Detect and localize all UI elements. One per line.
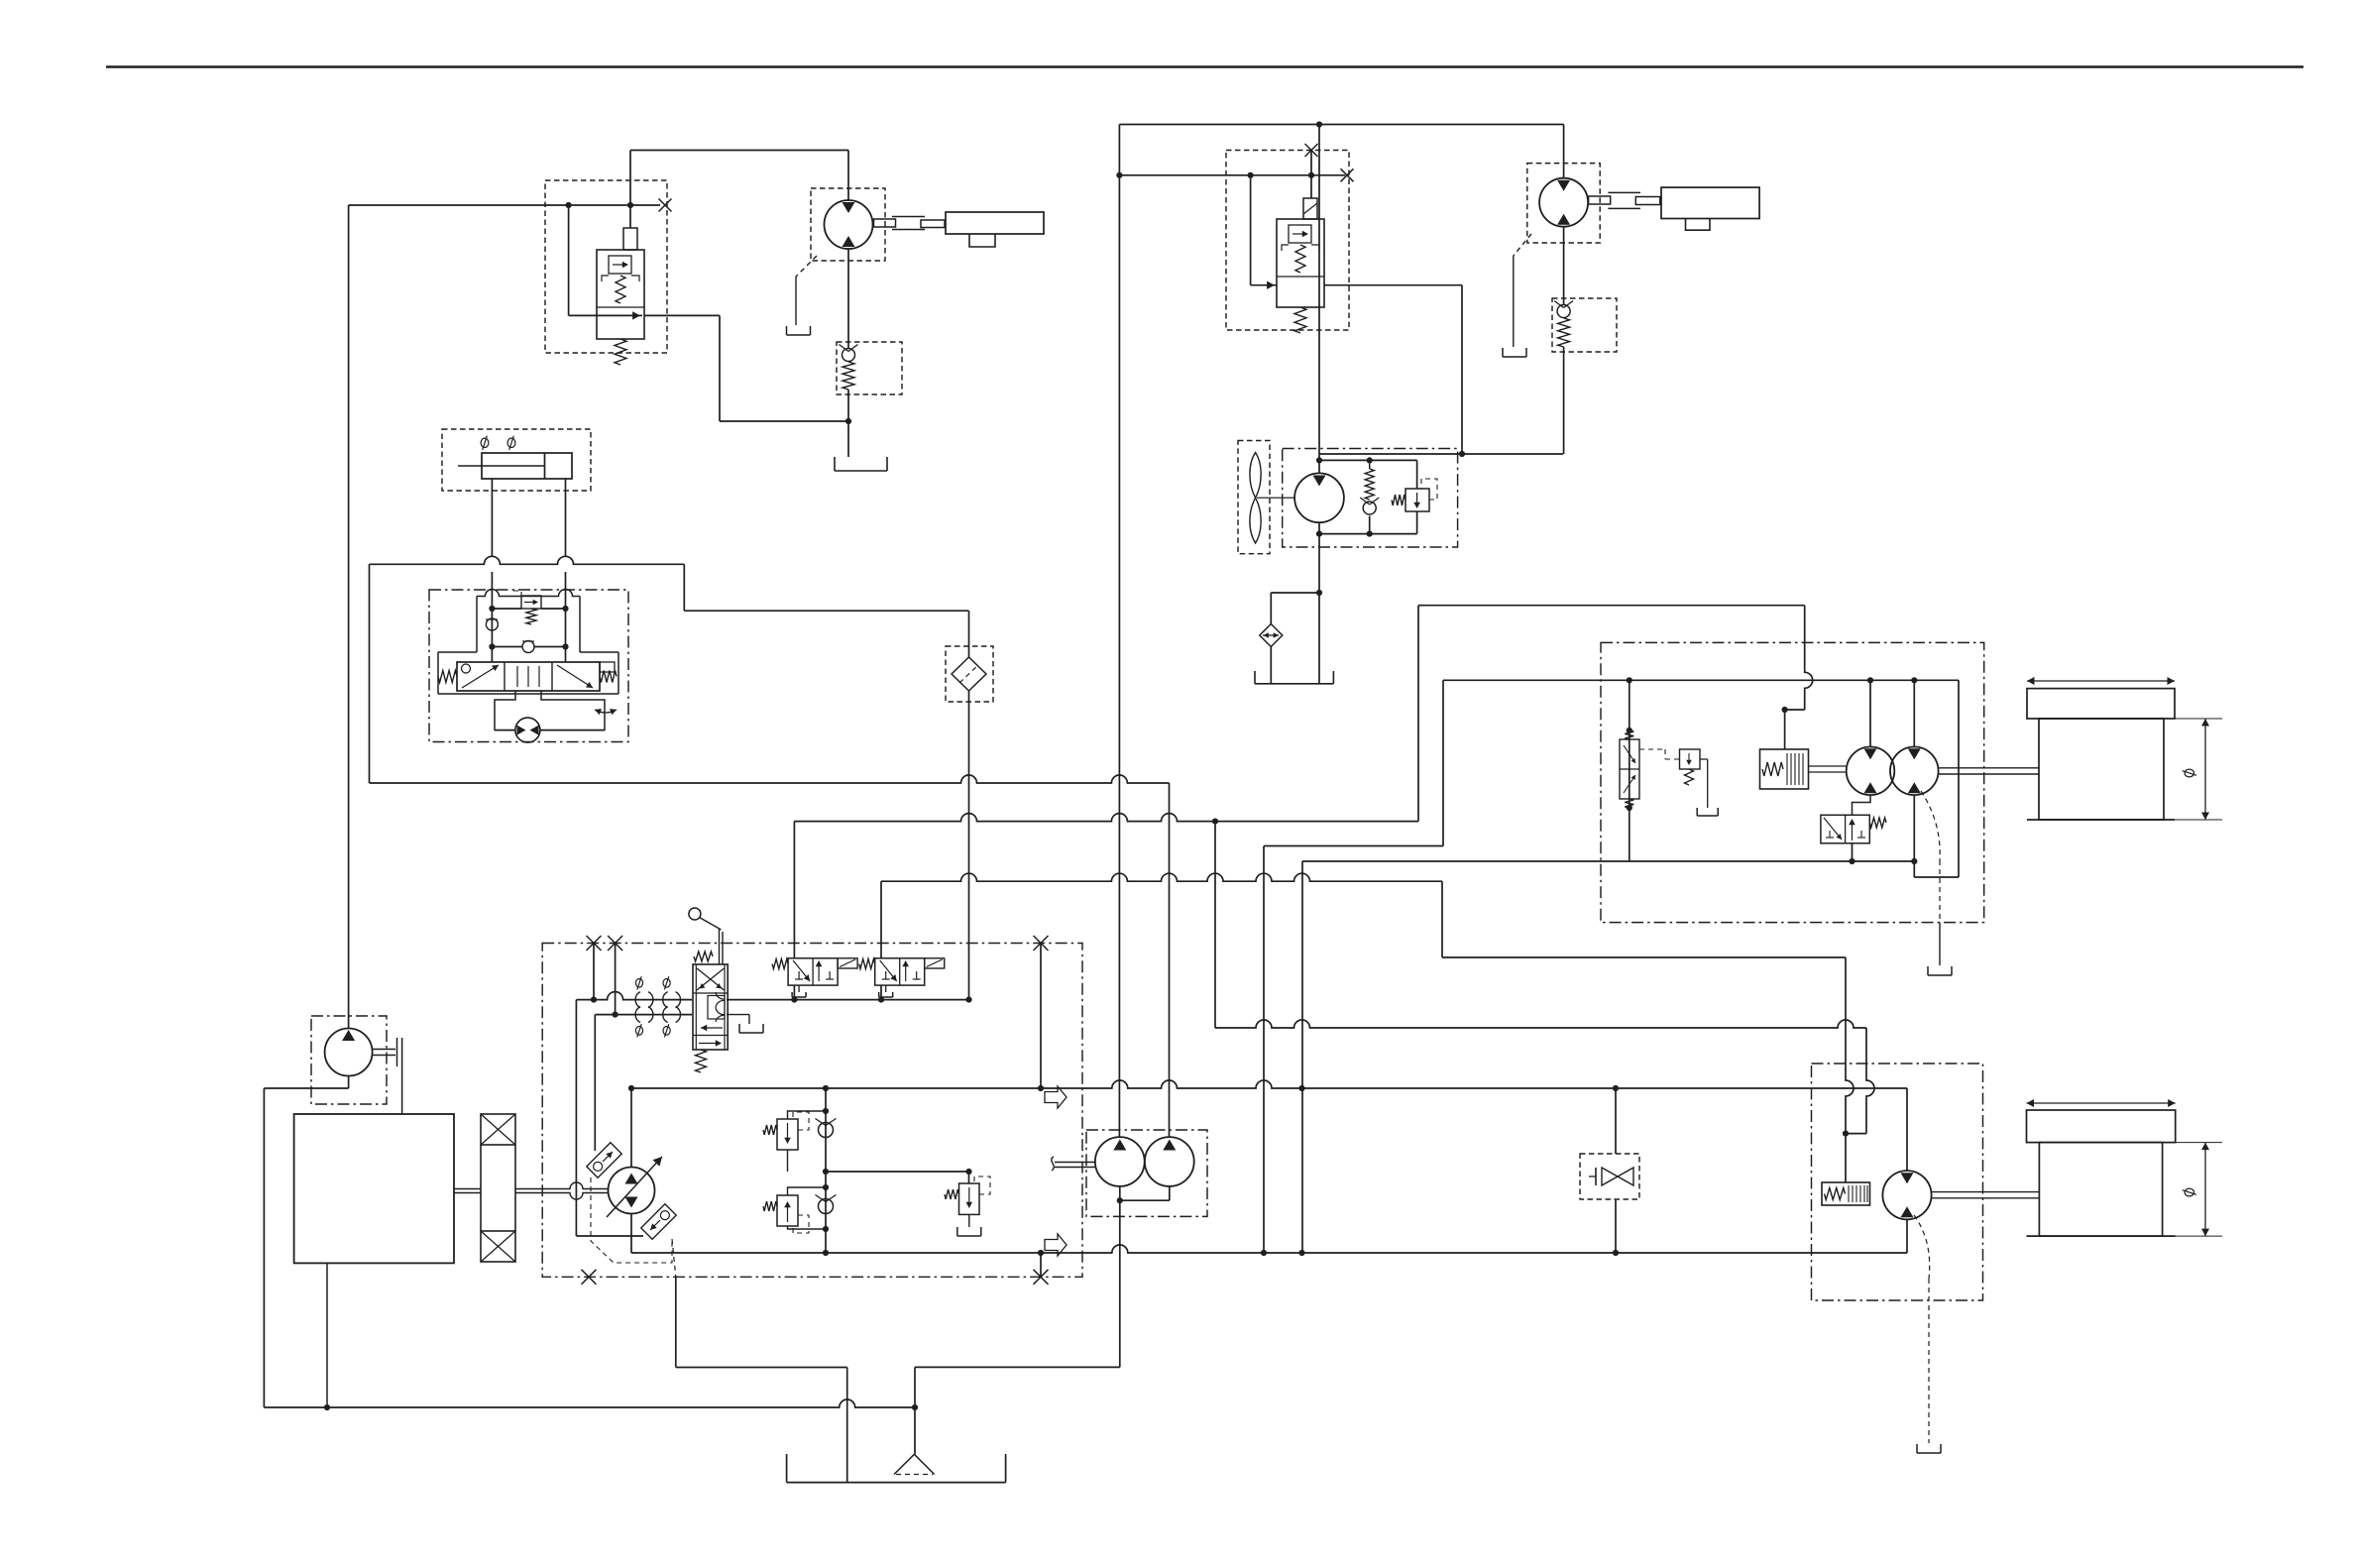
motor case drain — [1921, 791, 1940, 923]
wire pilot B — [595, 1014, 692, 1016]
check valve C1 spring — [843, 362, 854, 390]
valve B2 pilot cap — [1303, 198, 1317, 219]
wire — [1120, 1186, 1170, 1200]
drain bracket — [957, 1227, 981, 1236]
valve F4 left arrow — [462, 665, 499, 688]
relief valve F1 — [521, 596, 541, 609]
variable pump P1 — [609, 1168, 655, 1214]
pilot valve PM bottom spring — [1625, 799, 1633, 808]
wire — [1118, 125, 1120, 1138]
wire — [1914, 876, 1959, 878]
valve B2 body divider — [1277, 276, 1324, 278]
wire — [1369, 516, 1371, 534]
node junction — [1298, 1085, 1304, 1091]
node junction — [1316, 590, 1322, 596]
two-speed valve TS — [1821, 815, 1869, 843]
wire — [846, 1368, 848, 1483]
lever arm — [700, 918, 722, 931]
wire — [1563, 227, 1565, 304]
rear motor RM — [1882, 1171, 1931, 1219]
wire pilot — [1852, 843, 1854, 861]
wire — [593, 944, 595, 1000]
coupling housing — [481, 1145, 515, 1231]
check valve C2 enclosure — [1552, 298, 1617, 352]
valve F4 pilot circle — [462, 664, 471, 673]
motor M2 shaft — [1589, 196, 1611, 204]
wire — [719, 315, 721, 421]
pump P1 control cylinder B — [641, 1204, 676, 1239]
valve B1 bottom spring — [615, 339, 626, 365]
wire — [615, 944, 617, 1015]
wire — [349, 204, 660, 206]
node junction — [1316, 531, 1373, 537]
coupling — [892, 217, 925, 230]
wire — [684, 610, 968, 612]
travel motor MA — [1847, 747, 1895, 796]
wire crossover line2 — [826, 1171, 969, 1173]
wire — [1785, 709, 1805, 711]
wire — [1119, 124, 1563, 126]
swing cylinder barrel — [482, 453, 572, 479]
page header rule — [106, 65, 2304, 68]
wheel W1 body — [2039, 719, 2164, 820]
tandem pump S1 — [1095, 1137, 1145, 1186]
relief RV1 pilot dashed — [793, 1112, 809, 1130]
orifice — [635, 976, 653, 1007]
relief valve F1 spring — [526, 609, 536, 624]
wire M2 brake line — [1215, 1020, 1866, 1028]
wire — [1442, 956, 1846, 958]
tandem pump S2 — [1145, 1137, 1194, 1186]
wire — [264, 1400, 915, 1407]
wire pilot branch — [568, 205, 570, 315]
dimension label — [2183, 1188, 2196, 1196]
valve Lv body — [693, 964, 728, 1050]
valve B1 body — [597, 250, 644, 339]
filter G — [952, 657, 986, 691]
tandem shaft — [1055, 1163, 1095, 1168]
wire — [880, 985, 882, 1000]
relief R3 pilot dashed — [974, 1176, 990, 1194]
check valve F3 — [522, 641, 534, 653]
wire — [1040, 944, 1042, 1089]
node junction — [823, 1108, 829, 1114]
directional valve F4 body — [457, 662, 600, 691]
wire — [1906, 1219, 1908, 1253]
valve B1 pilot cap — [623, 228, 637, 250]
node junction — [1627, 677, 1632, 683]
lever stem — [720, 929, 724, 964]
shaft — [1635, 197, 1660, 205]
wire — [1866, 1028, 1874, 1134]
bypass valve — [1589, 1168, 1633, 1185]
valve B2 inner bracket — [1282, 245, 1319, 251]
two-speed valve left arrow — [1824, 818, 1842, 840]
brake actuator BR1 — [1760, 749, 1809, 789]
dimension line — [2163, 1143, 2222, 1237]
motor M1 shaft — [874, 219, 896, 227]
wire — [1846, 957, 1854, 1134]
node junction — [489, 643, 568, 649]
valve Lv orifice cell — [708, 992, 725, 1022]
pilot valve PM top spring — [1625, 730, 1633, 739]
node junction — [1782, 707, 1788, 713]
final drive block FD2 boss — [1686, 219, 1711, 231]
wire strainer stem — [914, 1407, 916, 1454]
wire — [1040, 1253, 1042, 1277]
wire bus3 — [881, 873, 1442, 881]
check valve C1 enclosure — [837, 342, 902, 394]
wire — [1939, 923, 1941, 965]
two-speed valve spring — [1869, 818, 1886, 828]
wheel W2 base — [2027, 1235, 2176, 1237]
charge pump shaft — [373, 1050, 395, 1056]
node junction — [823, 1169, 972, 1175]
wire — [968, 691, 970, 1000]
wire — [1319, 533, 1417, 535]
lever knob — [689, 908, 701, 920]
manifold outline — [438, 590, 618, 695]
valve Lv top spring — [694, 952, 713, 961]
node junction — [1212, 819, 1218, 825]
valve F4 left spring — [438, 671, 457, 683]
node junction — [823, 1184, 829, 1232]
wheel W2 flange — [2027, 1110, 2176, 1143]
valve F4 right cap — [600, 662, 615, 672]
wire — [565, 609, 567, 662]
feedback arrow — [595, 709, 617, 715]
pilot relief drain — [1700, 759, 1708, 808]
valve B1 enclosure — [545, 180, 667, 353]
wire — [495, 729, 605, 731]
gerotor motor F5 feed — [495, 691, 515, 730]
engine block — [294, 1114, 454, 1263]
pump P1 envelope — [591, 1177, 672, 1263]
valve Lv bottom spring — [696, 1050, 707, 1072]
drain bracket — [1697, 808, 1718, 816]
node junction — [1843, 1131, 1849, 1137]
wire — [1271, 592, 1319, 594]
pilot relief PR dashes — [1639, 749, 1679, 759]
pump shaft squiggle — [1052, 1157, 1055, 1171]
wire — [594, 1015, 596, 1151]
wire — [676, 1367, 847, 1369]
node fan feed junction — [1316, 121, 1322, 127]
wire — [1629, 680, 1630, 861]
shaft coupling bars — [397, 1038, 402, 1114]
shaft — [921, 220, 945, 228]
wire W1 riser — [1442, 680, 1444, 845]
valve B2 body — [1277, 219, 1324, 307]
wire pump pressure — [348, 205, 350, 1029]
orifice — [635, 1007, 653, 1038]
wire — [1270, 647, 1272, 684]
fan motor FM — [1294, 473, 1344, 522]
wire brake feed bump — [1805, 606, 1813, 710]
node junction — [1117, 1197, 1123, 1203]
drain bracket — [1928, 966, 1952, 975]
wire — [629, 151, 631, 229]
dimension line — [2027, 1099, 2176, 1107]
valve B2 inner spring — [1295, 245, 1305, 273]
swing cylinder rod — [458, 465, 545, 467]
wire — [1869, 680, 1871, 746]
wire — [1318, 522, 1320, 684]
fan relief feed — [1416, 460, 1418, 489]
wire loop line3 — [631, 1245, 1907, 1253]
port label phi — [507, 436, 515, 450]
engine shaft — [454, 1189, 481, 1193]
pilot valve V1 — [772, 958, 857, 997]
brake actuator BR2 — [1822, 1182, 1870, 1205]
wire crossover 2 — [492, 646, 565, 648]
wire — [720, 420, 848, 422]
node junction — [1116, 172, 1122, 178]
wire — [1119, 1186, 1121, 1200]
valve B1 inner relief — [609, 256, 631, 274]
wire — [825, 1172, 827, 1253]
wire — [575, 1000, 577, 1236]
charge pump SP enclosure — [311, 1016, 387, 1104]
plugged port marker — [1341, 168, 1354, 181]
dimension line — [2027, 677, 2175, 685]
wire — [847, 151, 849, 201]
wire — [1958, 680, 1960, 877]
pilot relief PR spring — [1685, 769, 1694, 785]
node junction — [1367, 457, 1373, 463]
valve Lv top cell cross — [697, 968, 725, 990]
wire drain — [675, 1277, 677, 1367]
node junction — [1038, 1085, 1044, 1091]
relief RV1 — [777, 1119, 798, 1150]
valve Lv drain — [727, 1015, 749, 1024]
dimension label — [2183, 769, 2196, 777]
motor output shaft — [1939, 768, 2039, 774]
pump P1 suction — [630, 1214, 632, 1254]
wire — [793, 985, 795, 1000]
gerotor motor F5 — [515, 718, 540, 742]
wire loop line1 — [631, 1080, 1907, 1088]
wire — [1615, 1199, 1617, 1253]
node junction — [628, 1085, 634, 1091]
relief R3 feed — [968, 1172, 970, 1183]
charge pump suction — [264, 1076, 348, 1089]
pilot valve PM details — [1624, 745, 1635, 793]
tank T2 — [1255, 671, 1333, 684]
wire — [491, 609, 493, 662]
node junction — [613, 1012, 618, 1018]
bypass valve enclosure — [1580, 1154, 1639, 1199]
travel motor MB — [1890, 747, 1939, 796]
wire W1 feeder — [1264, 845, 1443, 847]
motor M2 enclosure — [1527, 164, 1600, 243]
relief RV2 — [777, 1195, 798, 1226]
node supply junction — [566, 202, 572, 208]
pilot relief PR — [1680, 749, 1701, 769]
drain to tank — [787, 326, 811, 335]
wire suction from tank — [263, 1088, 265, 1407]
wire — [1119, 174, 1345, 176]
node junction — [1849, 858, 1854, 864]
check valve C2 — [1554, 301, 1573, 318]
wire pilot A2 — [727, 999, 969, 1001]
wire — [1563, 125, 1565, 178]
wire B2 outlet — [1324, 284, 1462, 286]
fan motor enclosure — [1283, 449, 1458, 548]
drain bracket — [739, 1024, 763, 1033]
rear motor box enclosure — [1812, 1064, 1983, 1300]
port label phi — [481, 436, 489, 450]
wire bypass — [370, 556, 685, 564]
valve F4 mid detail — [517, 666, 539, 687]
wire — [1913, 795, 1915, 877]
port marker — [587, 936, 1049, 951]
wheel W1 flange — [2027, 689, 2175, 719]
wire — [1318, 125, 1320, 474]
pilot valve PM body — [1620, 739, 1639, 799]
node junction — [324, 1404, 330, 1410]
wire — [1319, 453, 1563, 455]
wire — [1845, 1134, 1847, 1182]
wire bus1 — [370, 775, 1170, 783]
fan check spring — [1365, 460, 1374, 500]
pump P1 stroke arrow — [607, 1157, 662, 1217]
check valve F2 — [486, 618, 498, 630]
node check outlet junction — [845, 418, 851, 424]
wire cyl port A — [491, 572, 493, 609]
brake shaft — [1809, 766, 1847, 772]
wire — [1214, 822, 1216, 1028]
swing cylinder piston — [544, 453, 546, 479]
node junction — [1867, 677, 1873, 683]
wire cyl port B — [565, 479, 567, 556]
node junction — [1911, 677, 1917, 683]
wire — [1563, 347, 1565, 454]
relief R3 spring — [945, 1189, 959, 1199]
wire pilot branch — [1250, 175, 1252, 285]
valve F4 right arrow — [557, 665, 593, 688]
flow arrow — [1045, 1234, 1067, 1256]
node junction — [1308, 172, 1314, 178]
final drive block FD1 boss — [969, 234, 995, 247]
wire bus2 — [794, 814, 1418, 822]
breather filter — [1260, 624, 1283, 647]
wire to tank — [847, 421, 849, 457]
node junction — [1248, 172, 1254, 178]
wire W2 — [1302, 860, 1914, 862]
check valve C1 — [840, 345, 858, 362]
fan enclosure — [1238, 441, 1270, 554]
two-speed valve left T — [1826, 831, 1834, 838]
valve B1 inner bracket — [602, 276, 639, 281]
wire brake line — [1418, 605, 1805, 607]
two-speed valve right T — [1857, 831, 1865, 838]
motor M2 case drain — [1514, 234, 1531, 347]
check CV2 — [816, 1195, 837, 1214]
wire brake line riser — [1417, 606, 1419, 822]
wire cyl port B — [565, 572, 567, 609]
orifice — [663, 976, 681, 1007]
flow arrow — [1045, 1086, 1067, 1108]
valve B2 bottom spring — [1294, 307, 1306, 333]
pump shaft — [515, 1182, 609, 1199]
pump P1 feed — [630, 1088, 632, 1168]
wire — [880, 881, 882, 958]
wire — [1461, 285, 1463, 454]
relief R3 drain — [968, 1214, 970, 1227]
gerotor motor F5 feed2 — [541, 691, 605, 730]
wire — [1784, 710, 1786, 749]
main tank — [787, 1454, 1006, 1483]
engine drain — [326, 1263, 328, 1407]
relief RV2 loop — [788, 1187, 827, 1229]
relief RV1 spring — [763, 1125, 777, 1135]
tank T1 — [835, 457, 887, 471]
valve block F enclosure — [429, 590, 628, 742]
plugged port marker — [1305, 144, 1318, 157]
pump P1 case drain — [672, 1239, 676, 1277]
valve F4 right spring — [600, 671, 617, 683]
wire — [576, 1235, 643, 1237]
fan relief spring — [1392, 495, 1405, 505]
node junction — [591, 997, 972, 1003]
drain to tank — [1503, 348, 1526, 357]
pilot valve V2 — [859, 958, 945, 997]
filter G enclosure — [946, 646, 993, 702]
wire — [847, 390, 849, 421]
check valve C2 spring — [1558, 318, 1570, 347]
rear motor shaft — [1932, 1192, 2040, 1198]
node valve B1 inlet junction — [627, 202, 633, 208]
final drive block FD1 — [946, 212, 1044, 234]
wire — [1615, 1088, 1617, 1154]
wire — [1853, 795, 1871, 815]
wire — [1310, 151, 1312, 199]
relief R3 — [959, 1183, 980, 1214]
valve B2 enclosure — [1226, 151, 1349, 331]
wire B1 outlet — [644, 314, 720, 316]
fan relief valve — [1405, 489, 1429, 511]
node strainer junction — [912, 1404, 918, 1410]
wire — [1169, 783, 1171, 1137]
motor M2 — [1539, 178, 1588, 227]
charge pump SP — [325, 1029, 373, 1076]
wire — [968, 611, 970, 657]
node junction — [489, 606, 568, 612]
wire — [1906, 1088, 1908, 1171]
node junction — [1459, 451, 1465, 457]
check CV1 — [816, 1119, 837, 1138]
node junction — [1627, 728, 1632, 811]
valve B1 body divider — [597, 306, 644, 308]
relief RV2 pilot dashed — [793, 1215, 809, 1233]
wire — [1270, 593, 1272, 624]
travel motor box M enclosure — [1601, 642, 1984, 922]
node junction — [1911, 858, 1917, 864]
wire — [825, 1088, 827, 1172]
wire — [915, 1366, 1120, 1368]
coupling — [1608, 192, 1640, 208]
valve B1 inner spring — [616, 276, 625, 303]
wheel W2 body — [2039, 1143, 2162, 1237]
wire — [369, 564, 371, 783]
wire — [1301, 861, 1303, 1253]
wire — [914, 1367, 916, 1407]
valve B2 inner relief — [1289, 225, 1311, 243]
final drive block FD2 — [1661, 187, 1759, 218]
wire — [1319, 459, 1417, 461]
wire crossover — [492, 608, 565, 610]
